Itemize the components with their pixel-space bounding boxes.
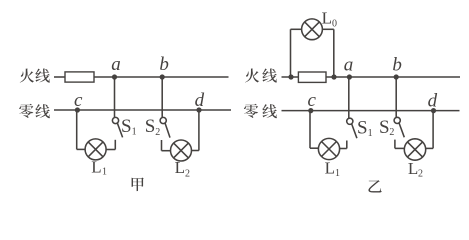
- lamp L2 (left circuit): [171, 140, 192, 161]
- svg-text:d: d: [195, 90, 205, 111]
- switch S1 (left circuit): [112, 117, 122, 149]
- svg-text:1: 1: [132, 126, 137, 137]
- svg-text:d: d: [428, 90, 438, 111]
- wire lamp L1 to switch S1 stub: [106, 149, 116, 151]
- wire lamp L1 to switch S1 stub (right): [340, 148, 347, 150]
- svg-text:S: S: [379, 117, 390, 138]
- svg-text:a: a: [111, 54, 121, 75]
- switch S2 (right circuit): [394, 117, 404, 148]
- wire node b down to switch S2 (right): [395, 77, 397, 117]
- lamp L1 (right circuit): [318, 138, 339, 159]
- wire L0 left leg: [291, 29, 302, 77]
- fuse (left circuit): [65, 72, 94, 82]
- label 甲 (left circuit caption): [132, 178, 144, 192]
- neutral wire (left circuit): [54, 109, 231, 111]
- switch S1 (right circuit): [347, 118, 357, 148]
- lamp L2 (right circuit): [404, 139, 425, 160]
- svg-text:L: L: [325, 159, 335, 178]
- wire node a down to switch S1: [114, 77, 116, 117]
- wire L0 right leg: [322, 29, 333, 77]
- node b (right circuit): [392, 54, 402, 79]
- svg-text:b: b: [392, 54, 402, 75]
- svg-text:L: L: [322, 8, 332, 27]
- fuse (right circuit): [298, 72, 326, 82]
- svg-text:1: 1: [368, 128, 373, 139]
- live wire (left circuit): [54, 76, 229, 78]
- svg-text:S: S: [145, 116, 156, 137]
- wire lamp L2 up to node d: [191, 110, 199, 151]
- node a (right circuit): [344, 55, 354, 80]
- svg-text:1: 1: [102, 167, 107, 178]
- svg-text:2: 2: [389, 127, 394, 138]
- svg-text:c: c: [74, 90, 83, 111]
- svg-text:L: L: [175, 158, 185, 177]
- switch S2 (left circuit): [160, 117, 170, 150]
- svg-text:c: c: [308, 90, 317, 111]
- wire switch S2 stub to lamp L2: [162, 150, 171, 152]
- node d (right circuit): [428, 90, 438, 113]
- node c (right circuit): [308, 90, 317, 113]
- node d (left circuit): [195, 90, 205, 113]
- svg-text:2: 2: [185, 168, 190, 179]
- svg-text:1: 1: [335, 168, 340, 179]
- node c (left circuit): [74, 90, 83, 113]
- svg-text:L: L: [408, 159, 418, 178]
- svg-text:a: a: [344, 55, 354, 76]
- junction dot left of fuse (L0 tap): [288, 74, 293, 79]
- label 零线 (neutral wire, left circuit): [19, 104, 50, 118]
- label 火线 (live wire, left circuit): [20, 69, 50, 83]
- svg-text:L: L: [91, 158, 101, 177]
- wire node a down to switch S1 (right): [348, 77, 350, 118]
- wire lamp L2 up to node d (right): [426, 111, 433, 149]
- wire node b down to switch S2: [161, 77, 163, 117]
- svg-text:0: 0: [332, 18, 337, 29]
- label 乙 (right circuit caption): [368, 180, 381, 192]
- node b (left circuit): [159, 54, 169, 79]
- wire switch S2 stub to lamp L2 (right): [395, 147, 404, 149]
- neutral wire (right circuit): [282, 110, 460, 112]
- svg-text:S: S: [357, 118, 368, 139]
- wire node c down to lamp L1: [77, 110, 86, 149]
- lamp L1 (left circuit): [85, 139, 106, 160]
- svg-text:S: S: [121, 116, 132, 137]
- lamp L0 (right circuit): [302, 19, 323, 40]
- label 火线 (live wire, right circuit): [245, 68, 277, 82]
- live wire (right circuit): [282, 76, 461, 78]
- label 零线 (neutral wire, right circuit): [244, 104, 277, 118]
- node a (left circuit): [111, 54, 121, 80]
- svg-text:b: b: [159, 54, 169, 75]
- svg-text:2: 2: [155, 127, 160, 138]
- svg-text:2: 2: [418, 169, 423, 180]
- junction dot right of fuse (L0 tap): [331, 74, 336, 79]
- wire node c down to lamp L1 (right): [310, 111, 318, 149]
